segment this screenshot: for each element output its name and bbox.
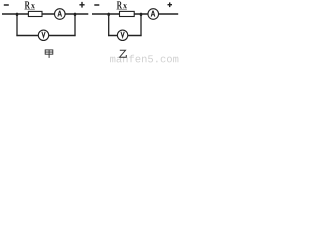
- node junction right (right circuit): [140, 13, 143, 17]
- label Rx (right): [117, 1, 127, 9]
- label yi (right circuit caption): [120, 50, 127, 57]
- voltmeter V (left circuit): [38, 30, 48, 40]
- node junction right (left circuit): [74, 13, 77, 17]
- wire left branch down (right circuit): [108, 13, 110, 36]
- watermark manfen5.com: [110, 57, 115, 63]
- label jia (left circuit caption): [45, 50, 53, 58]
- terminal - (right circuit): [94, 4, 99, 6]
- resistor Rx (right circuit): [120, 11, 135, 16]
- node junction left (right circuit): [107, 13, 110, 17]
- node junction left (left circuit): [16, 13, 19, 17]
- terminal + (right circuit): [168, 2, 173, 7]
- wire top (right circuit): [92, 13, 178, 15]
- wire bottom (left circuit): [16, 35, 75, 37]
- wire top (left circuit): [2, 13, 88, 15]
- label Rx (left): [25, 1, 35, 9]
- terminal + (left circuit): [79, 2, 84, 8]
- wire left branch down (left circuit): [16, 13, 18, 36]
- resistor Rx (left circuit): [28, 11, 42, 16]
- terminal - (left circuit): [4, 4, 9, 6]
- ammeter A (left circuit): [55, 9, 66, 20]
- wire right branch down (left circuit): [74, 13, 76, 36]
- voltmeter V (right circuit): [117, 30, 127, 40]
- wire right branch down (right circuit): [140, 13, 142, 36]
- wire bottom (right circuit): [108, 35, 142, 37]
- ammeter A (right circuit): [148, 9, 159, 20]
